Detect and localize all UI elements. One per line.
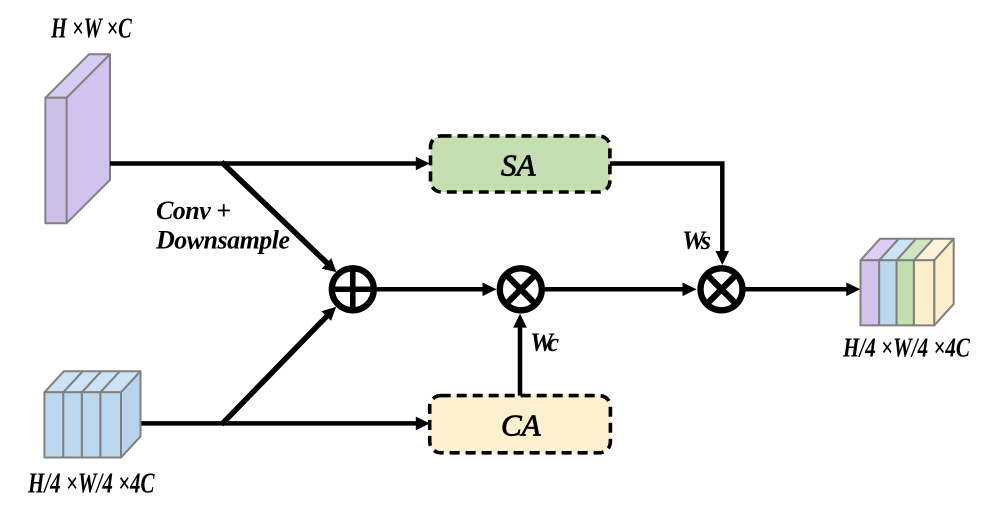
wire: multiply node 1 to multiply node 2 [542, 287, 683, 292]
svg-text:H/4 ×W/4 ×4C: H/4 ×W/4 ×4C [842, 333, 971, 363]
svg-text:H/4 ×W/4 ×4C: H/4 ×W/4 ×4C [27, 469, 155, 500]
wire: multiply node 2 to output block [743, 287, 847, 292]
CA box [430, 396, 611, 453]
multiply node 1 (circle-cross) [500, 268, 542, 310]
wire: conv+downsample diagonal to add node [222, 162, 328, 264]
wire: blue block to CA [141, 421, 417, 426]
svg-text:Wc: Wc [530, 328, 559, 357]
svg-text:H ×W ×C: H ×W ×C [50, 14, 132, 45]
svg-text:SA: SA [501, 148, 537, 183]
input block H×W×C (purple slab) [45, 54, 110, 223]
arrowhead into multiply node 2 [683, 283, 697, 297]
svg-text:Ws: Ws [682, 226, 711, 255]
svg-text:Downsample: Downsample [155, 226, 290, 255]
svg-text:Conv +: Conv + [156, 196, 231, 225]
arrowhead into add node (from top-left) [322, 258, 337, 272]
multiply node 2 (circle-cross) [701, 268, 743, 310]
add node (circle-plus) [332, 268, 374, 310]
input block H/4×W/4×4C (blue stack) [44, 371, 140, 457]
wire: SA to multiply node 2 (Ws) [610, 164, 722, 252]
arrowhead into add node (from bottom-left) [321, 307, 336, 321]
arrowhead into output block [846, 283, 860, 297]
arrowhead into CA [416, 417, 430, 431]
SA box [431, 136, 610, 192]
arrowhead into SA [416, 157, 430, 171]
svg-text:CA: CA [501, 408, 542, 443]
wire: diagonal up from blue line to add node [222, 316, 328, 425]
arrowhead into multiply node 2 from top [716, 251, 730, 265]
arrowhead into multiply node 1 from bottom [513, 314, 527, 328]
wire: CA to multiply node 1 (Wc) [518, 327, 523, 396]
output block H/4×W/4×4C (colored stack) [861, 239, 954, 326]
arrowhead into multiply node 1 [483, 283, 497, 297]
wire: purple block to SA [110, 161, 416, 166]
wire: add node to multiply node 1 [374, 287, 483, 292]
